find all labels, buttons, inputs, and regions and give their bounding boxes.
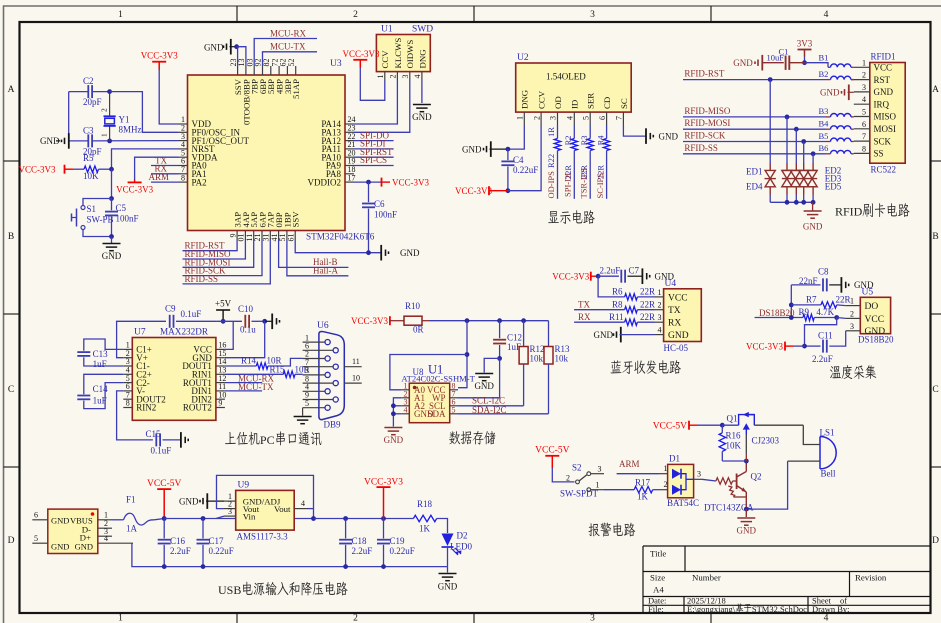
- svg-text:C8: C8: [818, 267, 829, 277]
- svg-text:6: 6: [862, 120, 866, 129]
- wire VCC pin16 riser: [225, 321, 233, 349]
- svg-text:C9: C9: [165, 304, 176, 314]
- svg-text:ARM: ARM: [148, 172, 169, 182]
- svg-text:C15: C15: [146, 429, 162, 439]
- svg-text:GND: GND: [51, 542, 69, 552]
- svg-text:GND: GND: [803, 222, 823, 232]
- diode ED4 column: [803, 142, 805, 164]
- svg-text:7: 7: [615, 116, 624, 120]
- wire PA14 to SWD pin2: [354, 88, 397, 124]
- svg-text:D: D: [932, 536, 939, 546]
- svg-text:RFID-MISO: RFID-MISO: [684, 106, 731, 116]
- svg-text:A: A: [8, 85, 15, 95]
- svg-text:R14: R14: [241, 355, 257, 365]
- svg-text:1K: 1K: [637, 492, 649, 502]
- resistor R7 22R: [791, 304, 821, 306]
- power VCC-3V3 below VDDA: [134, 180, 136, 183]
- wire V+ pin2 to C9 rail: [117, 321, 166, 357]
- svg-text:Y1: Y1: [119, 115, 130, 125]
- svg-text:ID: ID: [570, 100, 580, 109]
- svg-text:Number: Number: [692, 573, 721, 583]
- junction switch bottom: [109, 234, 114, 239]
- svg-text:10K: 10K: [726, 441, 742, 451]
- svg-text:SPI-DI: SPI-DI: [563, 173, 573, 197]
- svg-text:B: B: [8, 232, 14, 242]
- ground RFID rail: [812, 202, 814, 210]
- caption temperature: [830, 366, 841, 378]
- svg-text:0.1uF: 0.1uF: [151, 446, 172, 456]
- svg-text:5: 5: [862, 108, 866, 117]
- svg-text:1: 1: [850, 297, 854, 306]
- wire VSS pin16 to gnd: [295, 240, 368, 253]
- wire V- pin6 to C15: [117, 391, 153, 440]
- resistor R6 22R: [598, 276, 625, 297]
- svg-text:ED5: ED5: [825, 182, 842, 192]
- svg-text:2: 2: [100, 108, 109, 112]
- caption display circuit: [548, 211, 559, 223]
- display U2 1.54OLED body: [516, 63, 632, 112]
- ground right of C8: [848, 284, 850, 287]
- svg-text:2: 2: [389, 75, 398, 79]
- regulator U9 AMS1117-3.3 body: [236, 490, 295, 530]
- svg-text:CJ2303: CJ2303: [752, 436, 780, 446]
- caption bluetooth circuit: [611, 360, 622, 373]
- ground LED rail: [447, 567, 449, 573]
- svg-text:2.2uF: 2.2uF: [352, 546, 373, 556]
- wire rail to C10: [216, 320, 242, 322]
- svg-text:GND: GND: [438, 582, 458, 592]
- svg-text:R16: R16: [726, 431, 742, 441]
- capacitor C19 0.22uF: [383, 519, 385, 539]
- svg-text:4: 4: [413, 75, 422, 79]
- resistor R13 10k: [548, 321, 550, 347]
- svg-text:R13: R13: [555, 344, 571, 354]
- svg-text:SC: SC: [619, 98, 629, 109]
- switch S1 SW-PB: [83, 199, 112, 206]
- svg-text:BAT54C: BAT54C: [667, 498, 699, 508]
- net label SPI-DO: [354, 140, 394, 142]
- svg-text:Revision: Revision: [855, 573, 887, 583]
- svg-text:SPI-CS: SPI-CS: [360, 155, 387, 165]
- wire R18 to LED: [437, 519, 448, 534]
- junction fuse out: [162, 516, 167, 521]
- svg-text:Size: Size: [650, 573, 665, 583]
- svg-text:S1: S1: [87, 204, 97, 214]
- svg-text:4: 4: [566, 116, 575, 120]
- svg-text:2: 2: [532, 116, 541, 120]
- svg-text:R12: R12: [530, 344, 545, 354]
- svg-text:R10: R10: [405, 301, 421, 311]
- wire C2 left to C3 left: [69, 91, 88, 93]
- svg-text:VCC: VCC: [874, 63, 893, 73]
- net label SPI-DI vertical: [573, 151, 575, 199]
- net label SPI-RST vertical: [589, 151, 591, 199]
- wire Vin from rail: [216, 516, 224, 518]
- svg-text:RFID-MOSI: RFID-MOSI: [684, 118, 730, 128]
- wire C8 left riser: [790, 285, 792, 318]
- junction MOSI riser: [794, 127, 799, 132]
- wire VDDA pin5 to power: [135, 157, 179, 179]
- svg-text:VCC-3V3: VCC-3V3: [116, 185, 154, 195]
- wire R5 node down to switch/cap: [111, 169, 113, 198]
- svg-text:E:\gongxiang\: E:\gongxiang\: [687, 604, 736, 614]
- svg-text:1uF: 1uF: [93, 359, 107, 369]
- junction GND tie: [391, 411, 396, 416]
- svg-text:OD-IPS: OD-IPS: [546, 171, 556, 199]
- svg-text:C: C: [8, 385, 14, 395]
- svg-text:1R: 1R: [546, 127, 556, 137]
- svg-text:SER: SER: [586, 93, 596, 109]
- svg-text:1: 1: [118, 10, 123, 20]
- wire U5 GND down: [829, 331, 845, 346]
- junction rail a: [465, 318, 470, 323]
- svg-text:C14: C14: [93, 384, 109, 394]
- ground right of C15: [187, 439, 189, 442]
- resistor R12 10k: [523, 321, 525, 347]
- svg-text:2: 2: [566, 474, 570, 483]
- svg-text:DNG: DNG: [520, 89, 530, 109]
- capacitor C14 1uF: [84, 374, 124, 394]
- svg-text:10uF: 10uF: [767, 53, 785, 63]
- svg-text:R8: R8: [612, 300, 623, 310]
- svg-text:5: 5: [34, 534, 38, 543]
- svg-text:1: 1: [376, 75, 385, 79]
- svg-text:Hall-A: Hall-A: [313, 265, 338, 275]
- svg-text:ARM: ARM: [619, 459, 640, 469]
- svg-text:C17: C17: [209, 536, 225, 546]
- junction R9 VCC node: [834, 315, 839, 320]
- wire VCC down to C11 rail: [805, 318, 837, 347]
- junction VSS BOOT0 gnd: [234, 44, 239, 49]
- svg-text:4: 4: [104, 534, 108, 543]
- svg-text:ROUT2: ROUT2: [183, 403, 212, 413]
- svg-text:C19: C19: [390, 536, 406, 546]
- svg-text:OD: OD: [553, 96, 563, 109]
- svg-text:B3: B3: [819, 106, 829, 116]
- diode ED3: [795, 129, 797, 163]
- junction rail dots: [785, 200, 790, 205]
- resistor R2 22R: [573, 125, 575, 139]
- svg-text:1: 1: [100, 133, 109, 137]
- rail 3V3 out: [314, 518, 414, 520]
- RFID1 pins 1-8: [854, 58, 897, 158]
- svg-text:6: 6: [34, 511, 38, 520]
- svg-text:6: 6: [598, 116, 607, 120]
- caption alarm circuit: [588, 523, 599, 536]
- svg-text:File:: File:: [648, 604, 664, 614]
- svg-text:RIN2: RIN2: [136, 403, 156, 413]
- wire U9 pin4 out: [308, 508, 314, 510]
- svg-text:VCC-3V3: VCC-3V3: [455, 186, 493, 196]
- svg-text:D: D: [8, 536, 15, 546]
- wire WP pin7 to gnd node: [458, 358, 500, 397]
- svg-text:PA2: PA2: [192, 177, 207, 187]
- svg-text:GND: GND: [865, 327, 886, 337]
- svg-text:1: 1: [516, 116, 525, 120]
- op-amp U3 microcontroller STM32F042K6T6 body: [188, 75, 346, 231]
- D1 internal diodes: [672, 469, 681, 479]
- U1 pins 1-4: [376, 38, 427, 81]
- svg-text:R4: R4: [595, 135, 605, 146]
- net label SPI-DO vertical: [557, 151, 559, 199]
- svg-text:1uF: 1uF: [93, 396, 107, 406]
- svg-text:C: C: [932, 385, 938, 395]
- svg-text:C3: C3: [83, 126, 94, 136]
- svg-text:2: 2: [353, 614, 358, 623]
- svg-text:TX: TX: [578, 300, 590, 310]
- svg-text:R6: R6: [612, 287, 623, 297]
- svg-text:B1: B1: [819, 53, 829, 63]
- junction rail C17: [201, 564, 206, 569]
- caption data storage: [449, 431, 460, 444]
- svg-text:1.54OLED: 1.54OLED: [546, 72, 586, 82]
- svg-text:0.1u: 0.1u: [240, 325, 256, 335]
- svg-text:VCC-5V: VCC-5V: [653, 421, 687, 431]
- svg-text:1: 1: [658, 288, 662, 297]
- diode ED1: [769, 80, 771, 163]
- junction C4 top: [506, 147, 511, 152]
- junction +5V rail: [221, 319, 226, 324]
- svg-text:RST: RST: [874, 75, 891, 85]
- svg-text:RFID1: RFID1: [871, 52, 896, 62]
- svg-text:10k: 10k: [530, 354, 544, 364]
- svg-text:10: 10: [352, 374, 360, 383]
- svg-text:RFID: RFID: [835, 205, 863, 219]
- capacitor C12 1uF: [499, 321, 501, 339]
- svg-text:100nF: 100nF: [374, 210, 397, 220]
- svg-text:2: 2: [353, 10, 358, 20]
- svg-text:0R: 0R: [413, 325, 424, 335]
- svg-text:3V3: 3V3: [797, 39, 813, 49]
- memory U8 AT24C02C body: [409, 383, 449, 423]
- wire bell bottom: [788, 460, 820, 462]
- resistor R3 22R: [589, 125, 591, 139]
- wire R9 to U5 VCC: [837, 317, 846, 320]
- svg-text:GND: GND: [668, 331, 689, 341]
- svg-text:4: 4: [824, 10, 829, 20]
- diode ED5: [812, 154, 814, 163]
- junction C12 bottom: [497, 356, 502, 361]
- junction C18 top: [343, 516, 348, 521]
- svg-text:Bell: Bell: [821, 469, 836, 479]
- svg-text:C18: C18: [352, 536, 368, 546]
- power rail 5V: [164, 518, 313, 520]
- svg-text:R3: R3: [579, 136, 589, 146]
- svg-text:KLCWS: KLCWS: [393, 38, 403, 69]
- junction SCK riser: [801, 139, 806, 144]
- svg-text:3: 3: [549, 116, 558, 120]
- svg-text:VCC: VCC: [865, 315, 885, 325]
- svg-text:20pF: 20pF: [83, 97, 102, 107]
- diode ED2: [786, 117, 788, 163]
- svg-text:GND: GND: [874, 87, 894, 97]
- svg-text:3: 3: [658, 313, 662, 322]
- svg-text:USB: USB: [218, 583, 241, 597]
- ground below U8: [384, 427, 402, 429]
- svg-text:GND: GND: [659, 131, 679, 141]
- svg-text:61: 61: [286, 234, 295, 242]
- svg-text:VCC: VCC: [668, 293, 688, 303]
- junction C16 top: [201, 516, 206, 521]
- svg-text:CD: CD: [602, 97, 612, 109]
- svg-text:22R: 22R: [640, 287, 655, 297]
- svg-text:C11: C11: [818, 331, 833, 341]
- svg-text:3: 3: [850, 322, 854, 331]
- svg-text:8: 8: [181, 173, 185, 182]
- junction C2-crystal: [107, 89, 112, 94]
- svg-text:C12: C12: [507, 332, 522, 342]
- net label SPI-RST: [354, 156, 394, 158]
- svg-text:A: A: [932, 85, 939, 95]
- svg-text:F1: F1: [126, 495, 136, 505]
- svg-text:TX: TX: [668, 306, 681, 316]
- resistor R9 4.7K: [803, 314, 814, 320]
- svg-text:B5: B5: [819, 131, 829, 141]
- svg-text:R7: R7: [806, 294, 817, 304]
- wire LED down: [447, 547, 449, 567]
- svg-text:4: 4: [862, 95, 866, 104]
- svg-text:B: B: [932, 232, 938, 242]
- resistor R16 10K: [721, 425, 723, 433]
- svg-text:GND: GND: [737, 526, 757, 536]
- svg-text:C4: C4: [513, 155, 524, 165]
- connector RFID1 RC522 body: [870, 63, 905, 164]
- svg-text:2.2uF: 2.2uF: [812, 354, 833, 364]
- svg-text:SC-IPS: SC-IPS: [595, 173, 605, 199]
- svg-text:GND: GND: [51, 516, 69, 526]
- title block: [643, 546, 931, 613]
- svg-text:Drawn By:: Drawn By:: [812, 604, 850, 614]
- svg-text:VCC-3V3: VCC-3V3: [351, 316, 389, 326]
- svg-text:VCC-3V3: VCC-3V3: [342, 49, 380, 59]
- svg-text:MAX232DR: MAX232DR: [160, 327, 209, 337]
- svg-text:MCU-TX: MCU-TX: [270, 42, 306, 52]
- svg-text:0.22uF: 0.22uF: [390, 546, 415, 556]
- U3 bottom pins 9-16: [228, 211, 300, 242]
- svg-text:VCC-5V: VCC-5V: [535, 446, 569, 456]
- svg-text:3: 3: [862, 83, 866, 92]
- svg-text:C10: C10: [238, 304, 254, 314]
- wire Q1 drain to bell: [754, 424, 803, 426]
- svg-text:PC: PC: [260, 433, 275, 447]
- svg-text:VCC-5V: VCC-5V: [147, 479, 181, 489]
- svg-text:3: 3: [401, 75, 410, 79]
- wire PA13 to SWD pin3: [354, 88, 410, 132]
- U6 pins 1-9: [303, 333, 339, 410]
- junction rail C18: [343, 564, 348, 569]
- ground right of U2 pin7: [652, 135, 654, 138]
- ground right of C7: [649, 275, 651, 278]
- svg-text:R5: R5: [83, 153, 94, 163]
- svg-text:VCC-3V3: VCC-3V3: [18, 165, 56, 175]
- junction A2 tie: [391, 403, 396, 408]
- svg-text:2.2uF: 2.2uF: [170, 546, 191, 556]
- svg-text:B2: B2: [819, 69, 829, 79]
- svg-text:MOSI: MOSI: [874, 124, 897, 134]
- junction C19 top: [381, 516, 386, 521]
- svg-text:RC522: RC522: [871, 165, 897, 175]
- svg-text:DO: DO: [865, 302, 879, 312]
- svg-text:52: 52: [287, 59, 296, 67]
- resistor R1 22R: [557, 125, 559, 139]
- U3 top pins 32-25: [229, 59, 301, 125]
- junction Q2 collector: [744, 459, 749, 464]
- junction switch top: [109, 196, 114, 201]
- net label SPI-CS: [354, 165, 394, 167]
- junction C6 gnd: [366, 250, 371, 255]
- svg-text:3: 3: [228, 507, 232, 516]
- resistor R18 1K: [413, 515, 436, 521]
- svg-text:Vin: Vin: [243, 511, 256, 521]
- svg-text:OIDWS: OIDWS: [405, 40, 415, 69]
- svg-text:GND: GND: [384, 435, 404, 445]
- svg-text:STM32F042K6T6: STM32F042K6T6: [306, 232, 375, 242]
- junction rail c: [521, 318, 526, 323]
- svg-text:GND: GND: [75, 542, 93, 552]
- svg-text:Q1: Q1: [727, 414, 738, 424]
- svg-text:VCC-3V3: VCC-3V3: [552, 271, 590, 281]
- svg-text:2: 2: [664, 480, 668, 489]
- junction rail C19: [381, 564, 386, 569]
- svg-text:SDA: SDA: [427, 409, 446, 419]
- crystal Y1 8MHz: [109, 92, 111, 117]
- ground DB9 pin5: [302, 408, 304, 416]
- svg-text:4: 4: [658, 326, 662, 335]
- power VCC-3V3 at VDDIO2: [354, 181, 382, 183]
- ground SWD pin4: [421, 81, 423, 104]
- svg-text:VCC-3V3: VCC-3V3: [746, 341, 784, 351]
- svg-text:A4: A4: [653, 585, 664, 595]
- ground below S1/C5: [111, 237, 113, 244]
- net label SPI-DI: [354, 148, 394, 150]
- svg-text:U2: U2: [517, 53, 529, 63]
- junction RST riser: [768, 77, 773, 82]
- svg-text:0.22uF: 0.22uF: [209, 546, 234, 556]
- junction R5 node: [109, 167, 114, 172]
- U9 pins: [224, 500, 236, 502]
- svg-text:3: 3: [697, 470, 701, 479]
- svg-text:C6: C6: [374, 199, 385, 209]
- svg-text:DNG: DNG: [417, 49, 427, 69]
- wire D1 to Q2 base: [702, 479, 716, 481]
- svg-text:B4: B4: [819, 119, 830, 129]
- svg-text:3: 3: [590, 614, 595, 623]
- svg-text:ED4: ED4: [746, 182, 763, 192]
- junction SS riser: [811, 151, 816, 156]
- module U4 HC-05 body: [664, 289, 702, 342]
- U8 pins: [401, 381, 458, 419]
- wire gnd to pin31: [237, 47, 246, 66]
- svg-text:ED1: ED1: [746, 167, 763, 177]
- junction rail b: [497, 318, 502, 323]
- svg-text:C13: C13: [93, 349, 109, 359]
- svg-text:1: 1: [104, 510, 108, 519]
- wire C3 right to pin3: [93, 140, 179, 142]
- svg-text:GND: GND: [820, 88, 840, 98]
- wire SWD pin3 down: [409, 81, 411, 89]
- svg-text:10k: 10k: [555, 354, 569, 364]
- svg-text:SSV: SSV: [291, 211, 301, 228]
- svg-text:SS: SS: [874, 149, 884, 159]
- svg-text:2: 2: [862, 71, 866, 80]
- svg-text:U7: U7: [134, 328, 146, 338]
- svg-text:VDDIO2: VDDIO2: [308, 177, 342, 187]
- connector U1 SWD body: [376, 35, 430, 72]
- svg-text:1: 1: [118, 614, 123, 623]
- junction VDDIO2 node: [366, 180, 371, 185]
- diode D1 BAT54C body: [668, 464, 694, 497]
- svg-text:AT24C02C-SSHM-T: AT24C02C-SSHM-T: [401, 374, 475, 384]
